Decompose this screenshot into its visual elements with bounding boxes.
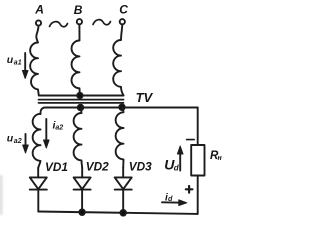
secondary winding a: [33, 114, 41, 168]
primary star wire: [39, 95, 124, 97]
svg-text:C: C: [119, 3, 128, 17]
diode VD2: [81, 168, 83, 177]
primary winding C: [113, 25, 123, 96]
resistor Rn: [191, 145, 204, 176]
secondary winding b: [74, 108, 83, 169]
AC tilde between B and C: [93, 20, 111, 25]
terminal A: [36, 20, 41, 25]
svg-text:A: A: [34, 3, 44, 17]
secondary winding c: [116, 107, 124, 167]
junction dot bus VD2: [79, 209, 85, 215]
primary winding B: [72, 25, 80, 96]
terminal B: [77, 19, 82, 24]
junction dot bus VD3: [120, 210, 126, 216]
secondary star wire: [40, 108, 197, 115]
u_a1 arrow: [24, 53, 26, 76]
svg-text:B: B: [74, 3, 83, 17]
svg-text:н: н: [218, 155, 223, 162]
plus sign: [186, 186, 193, 193]
AC tilde between A and B: [50, 22, 68, 27]
svg-text:VD2: VD2: [86, 159, 109, 173]
i_a2 arrow: [45, 119, 47, 145]
transformer core: [39, 99, 124, 101]
svg-text:VD3: VD3: [129, 160, 152, 174]
cathode bus wire: [38, 212, 197, 214]
svg-text:u: u: [7, 133, 14, 145]
junction dot primary B: [77, 93, 82, 98]
primary winding A: [30, 26, 39, 96]
minus sign: [187, 139, 195, 141]
i_d arrow: [162, 201, 184, 203]
svg-text:a1: a1: [14, 59, 22, 66]
junction dot secondary C: [119, 104, 125, 110]
svg-text:VD1: VD1: [45, 160, 68, 174]
load branch wire top: [197, 108, 199, 146]
u_a2 arrow: [25, 134, 27, 150]
diode VD1: [37, 168, 39, 177]
svg-text:d: d: [174, 164, 180, 173]
terminal C: [120, 19, 125, 24]
junction dot secondary B: [78, 105, 84, 111]
diode VD3: [122, 168, 124, 178]
load branch wire bottom: [197, 176, 199, 214]
svg-text:d: d: [168, 194, 173, 203]
svg-text:TV: TV: [136, 90, 154, 105]
U_d arrow: [179, 149, 181, 171]
svg-text:a2: a2: [55, 124, 63, 131]
svg-text:u: u: [7, 54, 14, 66]
svg-text:a2: a2: [14, 138, 22, 145]
scan smudge left edge: [0, 175, 2, 215]
